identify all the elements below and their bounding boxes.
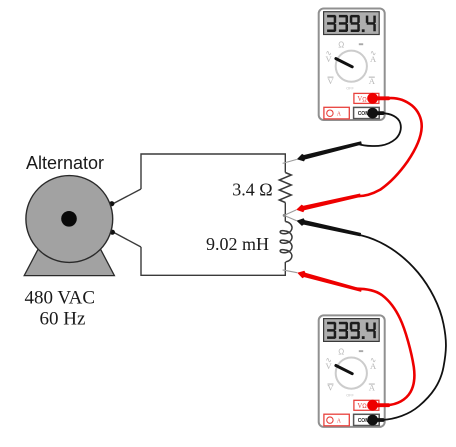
wire alternator top lead bbox=[113, 189, 142, 204]
M2 red probe tip bbox=[297, 271, 362, 292]
svg-text:∿: ∿ bbox=[325, 355, 331, 364]
svg-text:OFF: OFF bbox=[346, 87, 354, 91]
pin wire junction to black probe bbox=[284, 215, 297, 220]
M1 red test plug bbox=[367, 93, 390, 104]
wire bottom (alternator to inductor) bbox=[141, 247, 285, 275]
M2 LCD display 339.4 bbox=[324, 319, 380, 342]
svg-text:∿: ∿ bbox=[370, 355, 376, 364]
M1 red lead wire bbox=[356, 98, 422, 196]
node junction dot bbox=[283, 214, 286, 217]
M2 dial label DC volts bbox=[327, 383, 334, 393]
alternator shaft dot bbox=[61, 211, 77, 227]
M1 red probe tip bbox=[296, 194, 361, 213]
inductor L1 9.02 mH bbox=[280, 222, 292, 262]
multimeter M1 body bbox=[319, 9, 390, 121]
M2 dial label diode bbox=[359, 350, 363, 352]
M1 black test plug bbox=[367, 108, 384, 119]
M1 dial label AC amps bbox=[370, 48, 377, 64]
M2 black probe tip bbox=[297, 218, 362, 236]
M2 red lead wire bbox=[355, 289, 414, 406]
M2 COM jack bbox=[354, 414, 380, 425]
M1 dial needle bbox=[336, 59, 352, 67]
M2 dial needle bbox=[336, 366, 352, 374]
pin wire bottom right corner to red probe bbox=[283, 270, 298, 273]
svg-text:Ω: Ω bbox=[362, 404, 367, 410]
M1 dial label diode bbox=[359, 43, 363, 45]
resistor R1 3.4 ohm bbox=[279, 173, 291, 203]
svg-text:9.02 mH: 9.02 mH bbox=[206, 234, 269, 254]
M1 rotary dial bbox=[336, 51, 367, 82]
wire top (alternator to resistor) bbox=[141, 154, 285, 189]
M1 amps jack bbox=[324, 107, 349, 119]
M2 rotary dial bbox=[336, 358, 367, 389]
M1 black probe tip bbox=[297, 141, 362, 161]
M1 COM jack bbox=[354, 107, 380, 118]
M1 LCD display 339.4 bbox=[324, 12, 380, 35]
M2 dial label AC volts bbox=[325, 355, 332, 371]
M2 black test plug bbox=[367, 415, 384, 426]
wire alternator bottom lead bbox=[113, 232, 141, 247]
M2 red test plug bbox=[367, 400, 390, 411]
pin wire junction to red probe bbox=[284, 210, 296, 216]
svg-text:Ω: Ω bbox=[362, 97, 367, 103]
svg-text:OFF: OFF bbox=[346, 394, 354, 398]
svg-text:60 Hz: 60 Hz bbox=[40, 309, 86, 330]
M1 V-ohm jack bbox=[354, 93, 379, 103]
node alternator terminal top bbox=[109, 201, 114, 206]
alternator base bbox=[24, 248, 114, 276]
svg-text:∿: ∿ bbox=[370, 48, 376, 57]
M1 black lead wire bbox=[358, 113, 401, 146]
pin wire top right corner to black probe bbox=[283, 159, 297, 163]
M1 dial label DC volts bbox=[327, 76, 334, 86]
svg-text:Ω: Ω bbox=[338, 40, 344, 49]
M2 amps jack bbox=[324, 414, 349, 426]
alternator body bbox=[26, 176, 113, 263]
node alternator terminal bottom bbox=[110, 230, 115, 235]
svg-text:3.4 Ω: 3.4 Ω bbox=[232, 180, 272, 200]
svg-text:Ω: Ω bbox=[338, 347, 344, 356]
svg-text:480 VAC: 480 VAC bbox=[25, 288, 96, 309]
M1 dial label AC volts bbox=[325, 48, 332, 64]
wire resistor to junction bbox=[284, 203, 286, 222]
svg-text:Alternator: Alternator bbox=[26, 153, 104, 173]
M2 dial label AC amps bbox=[370, 355, 377, 371]
svg-text:∿: ∿ bbox=[325, 48, 331, 57]
M2 black lead wire bbox=[353, 233, 446, 420]
multimeter M2 body bbox=[319, 315, 390, 427]
M2 V-ohm jack bbox=[354, 400, 379, 410]
M1 dial label DC amps bbox=[369, 76, 376, 86]
M2 dial label DC amps bbox=[369, 383, 376, 393]
